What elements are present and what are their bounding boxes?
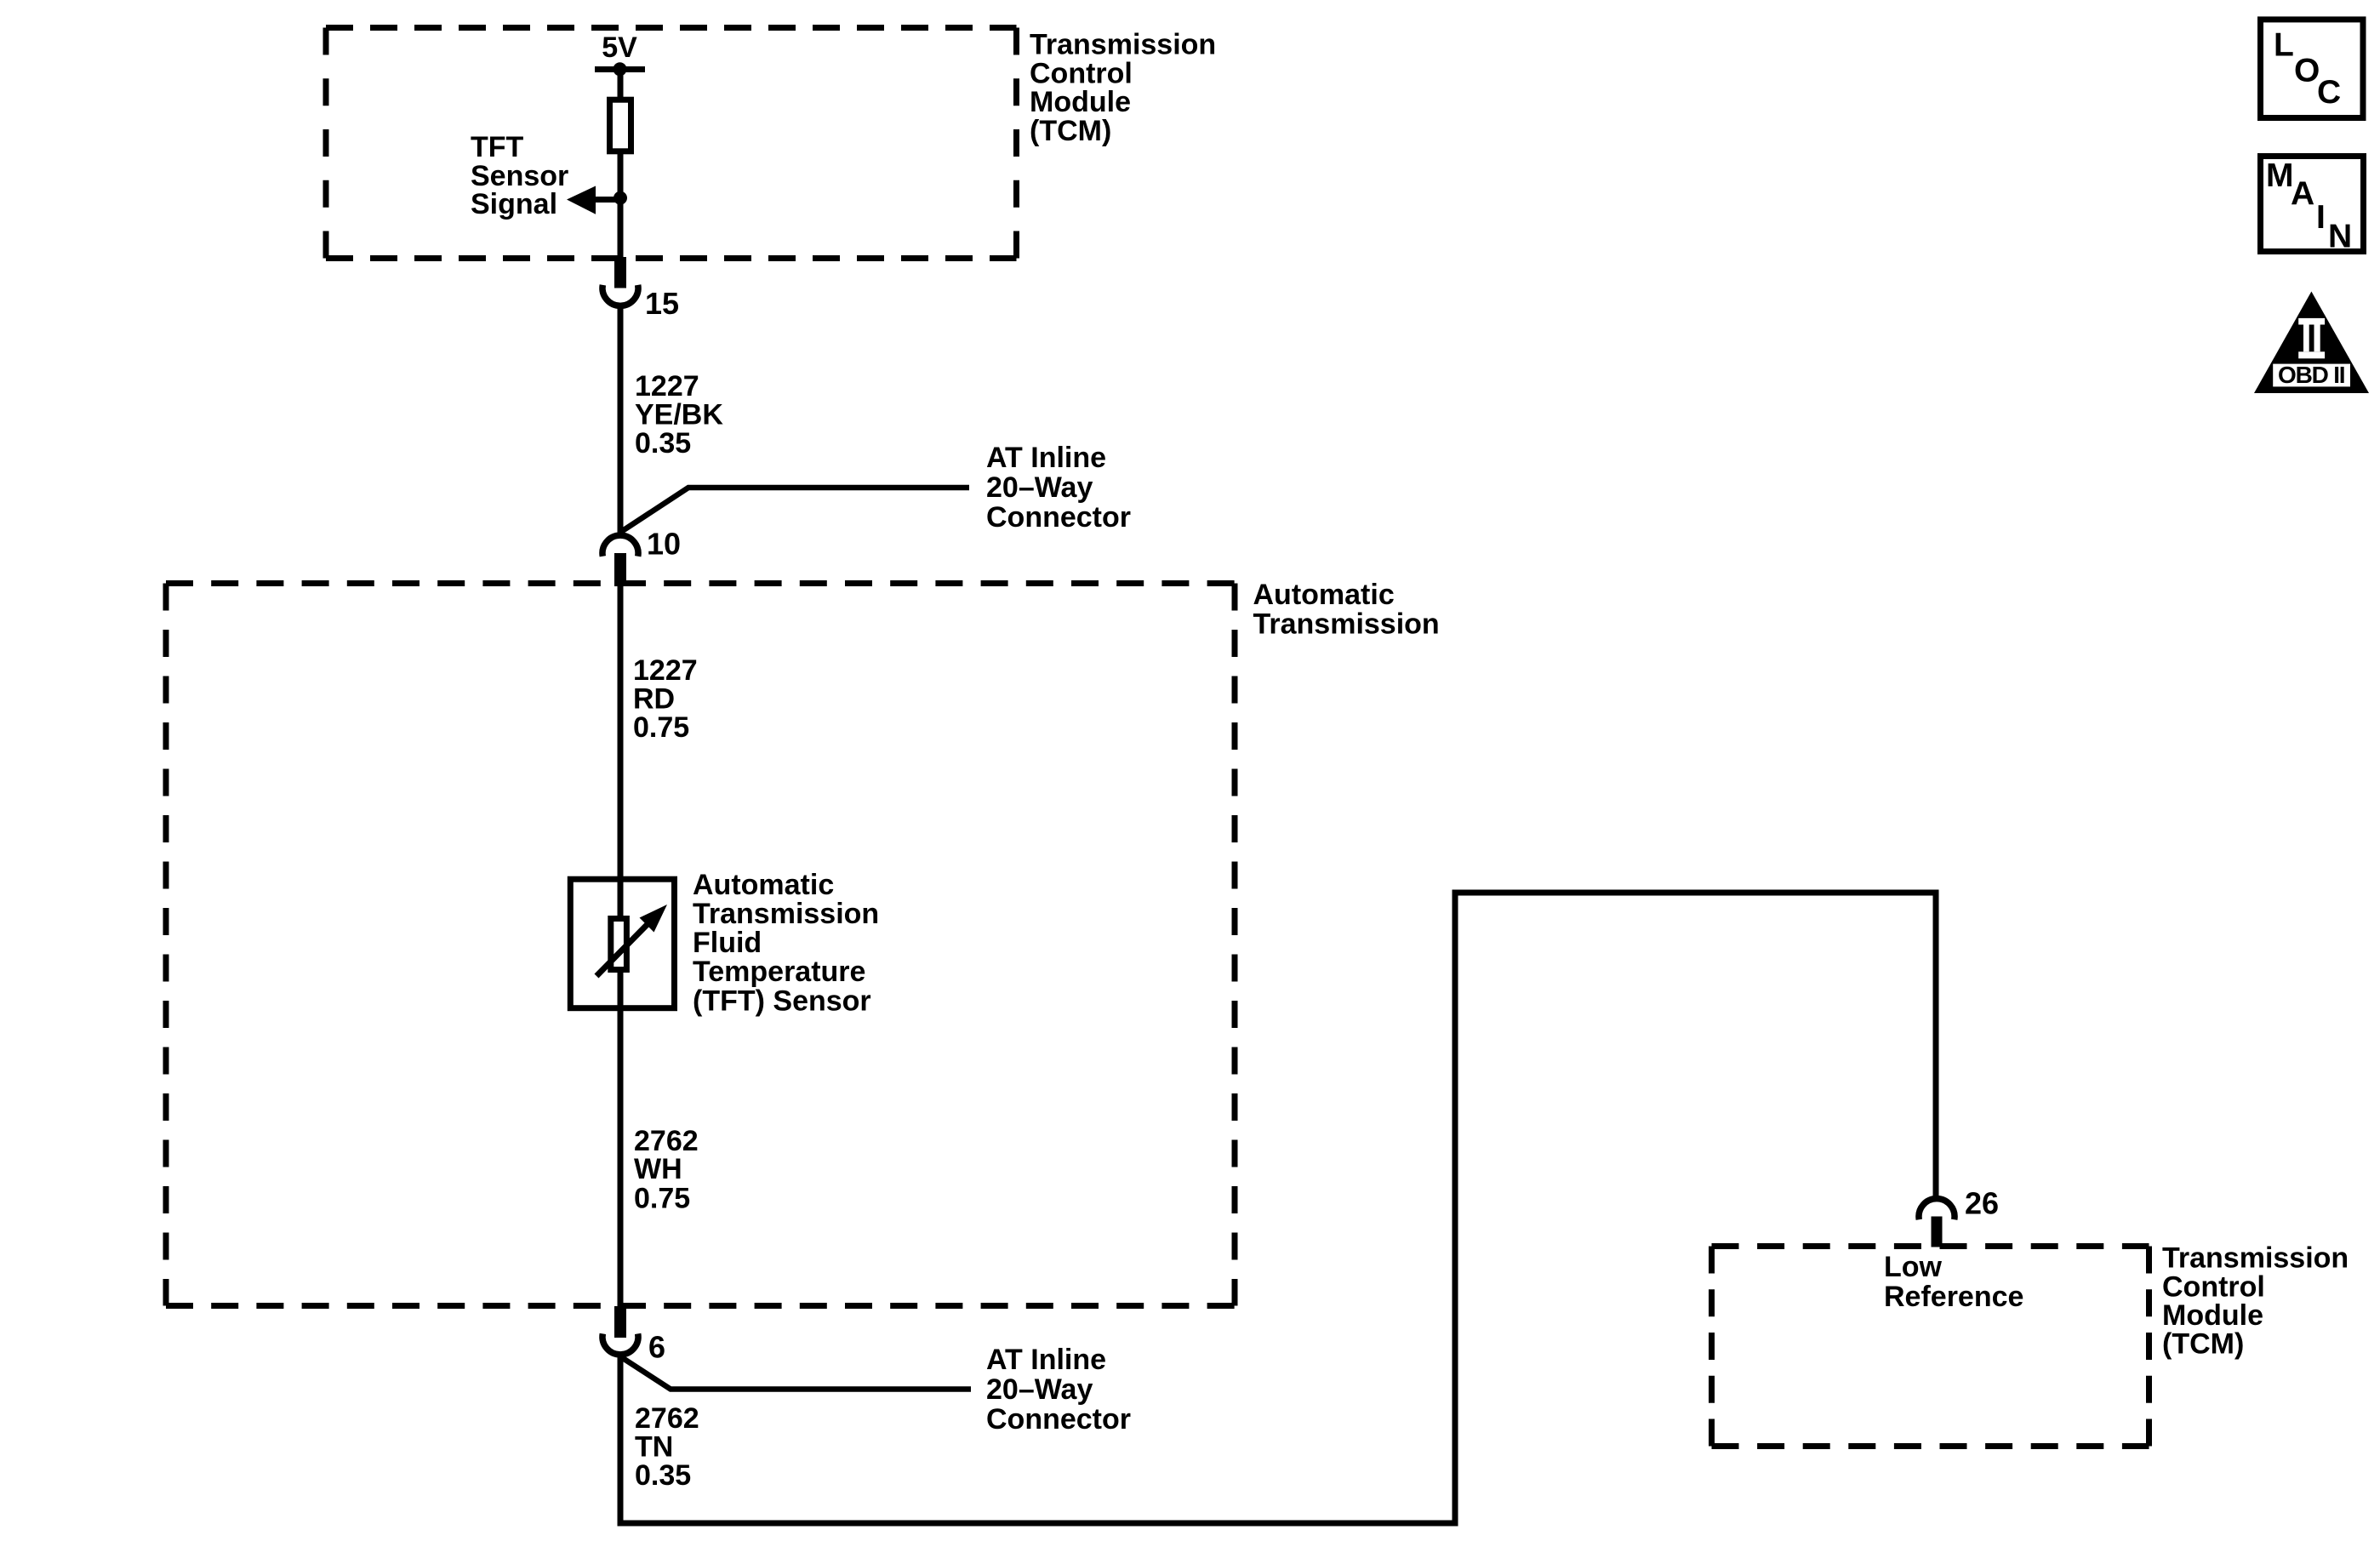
wire through TFT box (bottom) <box>618 969 624 1007</box>
svg-text:Transmission: Transmission <box>693 898 879 930</box>
label: Transmission Control Module (TCM) top <box>1030 29 1216 148</box>
svg-text:0.35: 0.35 <box>635 1459 691 1492</box>
svg-text:RD: RD <box>633 683 675 716</box>
svg-text:6: 6 <box>648 1330 665 1365</box>
connector 26 (male stub) <box>1932 1217 1943 1247</box>
wire: connector 6 to TCM low reference (long run) <box>620 893 1936 1523</box>
label: wire 1227 RD 0.75 <box>633 654 698 744</box>
svg-text:N: N <box>2328 218 2352 254</box>
svg-text:Transmission: Transmission <box>1030 29 1216 61</box>
wire 1227 YE/BK 0.35 <box>618 306 624 534</box>
TFT sensor box <box>570 879 674 1008</box>
OBD II icon (banner) <box>2273 364 2350 387</box>
svg-text:WH: WH <box>634 1153 682 1185</box>
label: TFT Sensor Signal <box>471 131 568 220</box>
svg-text:(TFT) Sensor: (TFT) Sensor <box>693 985 871 1018</box>
svg-text:0.75: 0.75 <box>634 1183 690 1215</box>
svg-text:Transmission: Transmission <box>1253 608 1440 641</box>
svg-text:OBD II: OBD II <box>2278 362 2344 388</box>
svg-text:Reference: Reference <box>1884 1281 2023 1313</box>
svg-text:Automatic: Automatic <box>693 869 834 901</box>
svg-text:20–Way: 20–Way <box>986 1373 1093 1406</box>
svg-text:AT Inline: AT Inline <box>986 442 1106 474</box>
MAIN icon (box) <box>2261 157 2364 252</box>
Automatic Transmission box (dashed) <box>166 584 1235 1306</box>
label: wire 1227 YE/BK 0.35 <box>635 370 723 459</box>
svg-text:Control: Control <box>1030 58 1133 90</box>
svg-text:10: 10 <box>647 527 681 562</box>
svg-text:AT Inline: AT Inline <box>986 1344 1106 1376</box>
wire: signal node to connector 15 <box>618 198 624 257</box>
svg-text:Signal: Signal <box>471 188 557 220</box>
thermistor arrow (head) <box>640 905 668 933</box>
TCM box (top, dashed) <box>326 28 1017 259</box>
wire 1227 RD 0.75 <box>618 586 624 879</box>
svg-text:(TCM): (TCM) <box>2162 1328 2244 1361</box>
node: 5V junction dot <box>614 62 627 76</box>
resistor R (TCM internal pull-up) <box>610 100 631 151</box>
leader line: AT Inline 20-Way Connector (bottom) <box>622 1358 971 1390</box>
MAIN icon letters <box>2266 157 2352 255</box>
svg-text:M: M <box>2266 157 2294 194</box>
svg-text:Temperature: Temperature <box>693 956 865 988</box>
OBD II icon (triangle) <box>2254 292 2369 394</box>
svg-text:0.75: 0.75 <box>633 711 689 744</box>
5V supply bar <box>595 66 645 72</box>
svg-text:0.35: 0.35 <box>635 427 691 459</box>
thermistor body (inner resistor) <box>611 919 627 970</box>
svg-text:2762: 2762 <box>635 1402 699 1435</box>
TCM box (bottom right, dashed) <box>1712 1247 2149 1447</box>
svg-text:15: 15 <box>645 286 679 321</box>
node: signal junction dot <box>614 191 627 205</box>
arrow: TFT Sensor Signal (shaft) <box>595 197 620 203</box>
svg-text:1227: 1227 <box>633 654 698 687</box>
label: Transmission Control Module (TCM) bottom right <box>2162 1242 2349 1361</box>
connector 10 (male stub) <box>614 553 626 586</box>
svg-text:Connector: Connector <box>986 1403 1131 1436</box>
arrow: TFT Sensor Signal (head) <box>567 186 596 214</box>
svg-text:I: I <box>2316 199 2326 236</box>
svg-text:Module: Module <box>2162 1299 2263 1332</box>
svg-text:O: O <box>2294 53 2320 89</box>
svg-text:Transmission: Transmission <box>2162 1242 2349 1275</box>
svg-text:5V: 5V <box>602 31 637 64</box>
svg-text:L: L <box>2274 27 2294 64</box>
svg-text:Control: Control <box>2162 1271 2265 1304</box>
connector 26 (female dome arc) <box>1919 1199 1955 1220</box>
svg-text:YE/BK: YE/BK <box>635 399 723 431</box>
label: AT Inline 20-Way Connector (bottom) <box>986 1344 1131 1436</box>
svg-text:A: A <box>2291 176 2314 213</box>
svg-text:C: C <box>2317 74 2341 111</box>
svg-text:Connector: Connector <box>986 501 1131 534</box>
svg-text:Fluid: Fluid <box>693 927 762 959</box>
thermistor arrow (shaft) <box>596 920 652 976</box>
wire 2762 WH 0.75 <box>618 1007 624 1306</box>
leader line: AT Inline 20-Way Connector (top) <box>620 488 969 533</box>
svg-text:26: 26 <box>1965 1186 1999 1221</box>
svg-text:Automatic: Automatic <box>1253 579 1395 611</box>
LOC icon letters <box>2274 27 2341 111</box>
svg-text:(TCM): (TCM) <box>1030 115 1111 147</box>
svg-text:TFT: TFT <box>471 131 524 163</box>
connector 6 (male stub) <box>614 1306 626 1338</box>
svg-text:TN: TN <box>635 1431 673 1464</box>
svg-text:20–Way: 20–Way <box>986 471 1093 504</box>
svg-text:1227: 1227 <box>635 370 699 402</box>
connector 10 (female dome arc) <box>602 535 638 557</box>
OBD II icon (pillar II symbol) <box>2298 318 2325 358</box>
LOC icon (box) <box>2261 20 2364 118</box>
connector 6 (female cup arc) <box>602 1333 638 1355</box>
label: AT Inline 20-Way Connector (top) <box>986 442 1131 534</box>
wire: 5V bar to resistor <box>618 69 624 100</box>
connector 15 (female cup arc) <box>602 285 638 306</box>
label: Low Reference <box>1884 1251 2023 1313</box>
label: wire 2762 WH 0.75 <box>634 1125 699 1215</box>
label: Automatic Transmission Fluid Temperature (TFT) Sensor <box>693 869 879 1018</box>
label: Automatic Transmission <box>1253 579 1440 641</box>
wire: resistor to signal node <box>618 151 624 201</box>
connector 15 (male stub) <box>614 257 626 288</box>
svg-text:Low: Low <box>1884 1251 1943 1283</box>
wire through TFT box (top) <box>618 879 624 919</box>
label: wire 2762 TN 0.35 <box>635 1402 699 1492</box>
svg-text:Module: Module <box>1030 86 1131 118</box>
